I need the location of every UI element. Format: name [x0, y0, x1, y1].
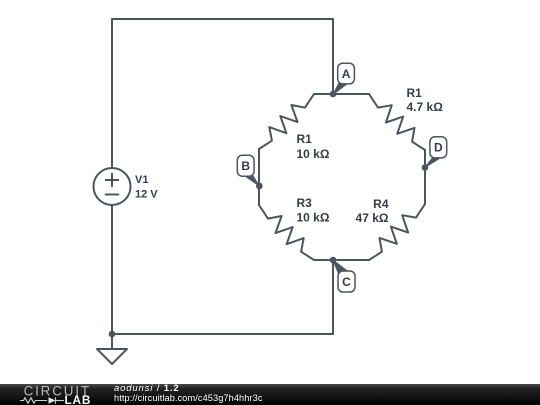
resistor R4 47k (D-C) [369, 204, 425, 260]
svg-text:10 kΩ: 10 kΩ [297, 147, 330, 161]
svg-text:A: A [342, 67, 351, 81]
svg-text:4.7 kΩ: 4.7 kΩ [407, 100, 444, 114]
svg-text:D: D [434, 141, 443, 155]
svg-text:R3: R3 [297, 196, 313, 210]
voltage source V1 [94, 168, 131, 205]
wire right lower (C to bottom) [332, 260, 334, 334]
svg-text:C: C [342, 275, 351, 289]
wire right upper (top to A) [332, 19, 334, 94]
wire left lower [111, 205, 113, 334]
svg-text:47 kΩ: 47 kΩ [356, 211, 389, 225]
node A [330, 63, 355, 97]
svg-text:V1: V1 [135, 174, 148, 186]
svg-text:R1: R1 [407, 86, 423, 100]
wire top [112, 18, 333, 20]
wire node C horizontal [314, 259, 369, 261]
resistor R1 10k (A-B) [259, 94, 314, 149]
node B [237, 155, 262, 189]
node C [330, 257, 355, 292]
wire left upper [111, 19, 113, 168]
svg-text:12 V: 12 V [135, 189, 158, 201]
svg-text:R1: R1 [297, 132, 313, 146]
svg-text:LAB: LAB [65, 393, 92, 405]
wire bottom [112, 333, 333, 335]
svg-text:B: B [241, 159, 250, 173]
svg-text:10 kΩ: 10 kΩ [297, 211, 330, 225]
ground [97, 334, 127, 364]
wire B vertical [258, 149, 260, 205]
wire node A horizontal [314, 93, 369, 95]
resistor R1 4.7k (A-D) [369, 94, 425, 150]
svg-text:R4: R4 [373, 197, 389, 211]
node D [422, 137, 447, 171]
wire D vertical [424, 150, 426, 204]
junction bottom-left [109, 331, 116, 338]
resistor R3 10k (B-C) [259, 205, 314, 260]
